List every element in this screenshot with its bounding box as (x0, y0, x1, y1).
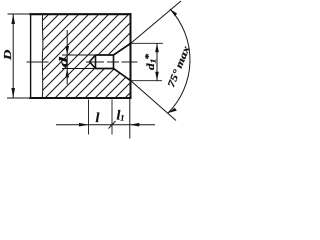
drill tip cone upper line (90, 55, 96, 62)
countersink cone lower line (114, 69, 131, 81)
dimension d extension top (62, 54, 96, 56)
dimension d line (66, 30, 68, 85)
break line (wavy) (41, 14, 44, 98)
arrow arc bottom (168, 108, 177, 113)
pilot/cone boundary edge (113, 54, 115, 69)
centerline (axis) dash through drill tip (86, 61, 104, 63)
countersink cone upper line (114, 44, 131, 56)
svg-text:d: d (58, 56, 70, 67)
dimension d extension bottom (62, 68, 96, 70)
arrow d bottom (pointing up) (65, 69, 69, 78)
tick slash at shared extension (109, 121, 116, 129)
arrow d1 top (pointing up) (155, 43, 159, 52)
angle leg upper (75 deg flare) (131, 1, 182, 44)
drill tip cone lower line (90, 62, 96, 69)
arrow D top (11, 14, 15, 24)
angle leg lower (75 deg flare) (131, 81, 177, 121)
svg-text:l: l (96, 111, 100, 126)
arrow l left (pointing right) (79, 123, 89, 127)
dimension d1 extension top (132, 42, 164, 44)
part outline right face edge (130, 13, 132, 99)
extension line l/l1 boundary (111, 100, 113, 135)
angle arc (168, 9, 190, 113)
dimension D line (12, 14, 14, 98)
part outline top edge (29, 13, 131, 15)
pilot hole left end edge (95, 54, 97, 69)
arrow l1 right (pointing left) (130, 123, 140, 127)
arrow D bottom (11, 88, 15, 98)
hatching of sectioned part (43, 15, 130, 99)
extension line for l (at drill tip) (88, 100, 90, 135)
part outline bottom edge (29, 97, 131, 99)
extension line bottom (for D) (7, 97, 30, 99)
pilot hole bottom edge (96, 68, 114, 70)
part outline left edge (30, 13, 32, 99)
pilot hole top edge (96, 54, 114, 56)
dimension d1 line (156, 43, 158, 80)
arrow d top (pointing down) (65, 46, 69, 55)
svg-text:D: D (2, 50, 14, 62)
arrow d1 bottom (pointing down) (155, 72, 159, 81)
centerline (axis) segment in left strip (27, 61, 49, 63)
centerline (axis) dash in pilot (107, 61, 119, 63)
dimension d1 extension bottom (132, 80, 163, 82)
dimension line l / l1 (56, 124, 155, 126)
extension line top (for D) (8, 13, 31, 15)
centerline (axis) dash through face (122, 61, 138, 63)
extension of right face edge (129, 99, 131, 139)
hole void (white mask over hatching) (90, 44, 131, 81)
arrow arc top (170, 9, 177, 16)
